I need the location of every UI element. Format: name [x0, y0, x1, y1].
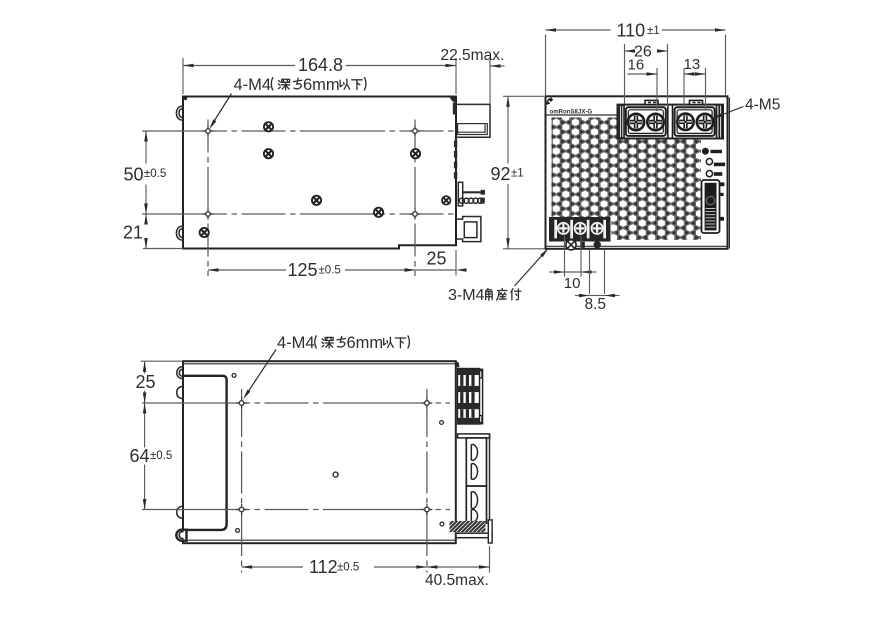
- svg-text:25: 25: [135, 372, 155, 392]
- bottom view output terminal profile: [450, 434, 493, 543]
- svg-text:110: 110: [617, 21, 646, 41]
- front view bottom joint line: [547, 245, 727, 247]
- bottom view input terminal profile: [458, 369, 483, 425]
- side view terminal screw shaft: [463, 191, 482, 193]
- svg-text:22.5max.: 22.5max.: [441, 47, 505, 64]
- dimension 22.5max.: [489, 58, 491, 104]
- dimension 26: [624, 44, 626, 104]
- front view DC ON LED: [702, 148, 709, 155]
- front view top-left corner clip: [547, 98, 552, 105]
- front view output terminal block: [618, 100, 724, 138]
- svg-text:4-M4: 4-M4: [234, 76, 272, 94]
- svg-text:40.5max.: 40.5max.: [425, 572, 489, 589]
- svg-text:164.8: 164.8: [298, 55, 343, 75]
- bottom view mounting hole nodes 4-M4: [236, 398, 247, 409]
- dimension 21: [145, 214, 147, 224]
- svg-text:6mm: 6mm: [303, 76, 340, 94]
- side view terminal screw flange: [458, 182, 462, 206]
- dimension 110±1: [545, 35, 547, 96]
- side view right edge vent dashes: [454, 141, 457, 148]
- svg-text:50: 50: [124, 165, 144, 185]
- bottom view inner top edge: [183, 363, 456, 365]
- svg-text:±1: ±1: [647, 25, 660, 37]
- bottom view corner details right: [456, 361, 460, 367]
- dimension 125±0.5: [208, 269, 286, 271]
- svg-text:92: 92: [491, 164, 511, 184]
- svg-text:±0.5: ±0.5: [150, 450, 172, 462]
- dimension 25 (side view): [455, 250, 457, 276]
- bottom view DIN clamp hatch: [450, 521, 486, 532]
- side view top-right corner clip: [450, 97, 457, 104]
- dimension 112±0.5: [242, 566, 303, 568]
- dimension 13: [683, 68, 685, 110]
- dimension 64±0.5: [144, 403, 146, 448]
- svg-text:125: 125: [288, 260, 318, 280]
- svg-text:8.5: 8.5: [585, 296, 607, 313]
- svg-text:±0.5: ±0.5: [337, 562, 359, 574]
- front view hex vent grille: [552, 118, 702, 241]
- svg-text:112: 112: [309, 557, 338, 577]
- front view barcode label block: [702, 180, 720, 233]
- svg-text:omRonS8JX-G: omRonS8JX-G: [550, 108, 593, 115]
- label 4-M4 bottom view with leader: [277, 334, 409, 352]
- side view centerline row 1: [142, 130, 456, 132]
- side view screw head near edge: [442, 196, 450, 204]
- bottom view centerline rows: [142, 402, 450, 404]
- svg-text:25: 25: [426, 249, 446, 269]
- front view below-terminal screw and stud: [566, 240, 576, 250]
- side view centerline column 2: [414, 120, 416, 277]
- side view: PSU left side panel outline: [183, 97, 456, 249]
- svg-text:21: 21: [123, 223, 143, 243]
- svg-text:16: 16: [628, 57, 645, 74]
- side view terminal screw with thread: [459, 198, 464, 203]
- side view left edge mounting bumps: [176, 106, 183, 120]
- front view top joint line: [547, 114, 618, 116]
- svg-text:4-M5: 4-M5: [745, 97, 780, 114]
- bottom view centerline columns: [241, 389, 243, 573]
- svg-text:3-M4: 3-M4: [448, 287, 485, 304]
- front view input terminal block 3-M4: [549, 217, 611, 242]
- front view V.ADJ potentiometers: [706, 159, 712, 165]
- svg-text:10: 10: [564, 275, 581, 292]
- dimension 16: [656, 68, 658, 111]
- dimension 164.8: [182, 58, 184, 94]
- dimension 50±0.5: [145, 131, 147, 164]
- label 4-M4 (depth<=6mm) with leader: [234, 76, 366, 94]
- side view top-left corner clip: [183, 97, 188, 101]
- side view bottom protrusion: DIN latch box: [456, 217, 481, 242]
- dimension 10 (input terminals): [564, 236, 566, 277]
- dimension 40.5max.: [489, 546, 491, 573]
- svg-text:±0.5: ±0.5: [144, 168, 166, 180]
- bottom view: PSU bottom outline: [183, 361, 456, 543]
- front view right edge outer line: [728, 98, 730, 249]
- svg-text:±0.5: ±0.5: [319, 265, 341, 277]
- side view centerline column 1: [207, 120, 209, 277]
- front view: PSU face outline: [546, 96, 728, 249]
- bottom view inner bottom edge: [183, 539, 456, 541]
- side view cover screws: [264, 122, 273, 131]
- dimension 8.5: [589, 249, 591, 294]
- svg-text:13: 13: [684, 56, 701, 73]
- svg-text:64: 64: [130, 446, 150, 466]
- side view mounting hole nodes 4-M4: [203, 126, 214, 137]
- bottom view mounting bracket outline: [184, 376, 227, 530]
- svg-text:±1: ±1: [511, 168, 524, 180]
- bottom view small holes: [232, 374, 236, 378]
- side view centerline row 2: [142, 213, 456, 215]
- dimension 25 (bottom view): [141, 360, 183, 362]
- dimension 92±1: [503, 95, 544, 97]
- bottom view left edge bumps and arcs: [177, 367, 183, 379]
- side view top protrusion: output terminal cover: [456, 104, 490, 137]
